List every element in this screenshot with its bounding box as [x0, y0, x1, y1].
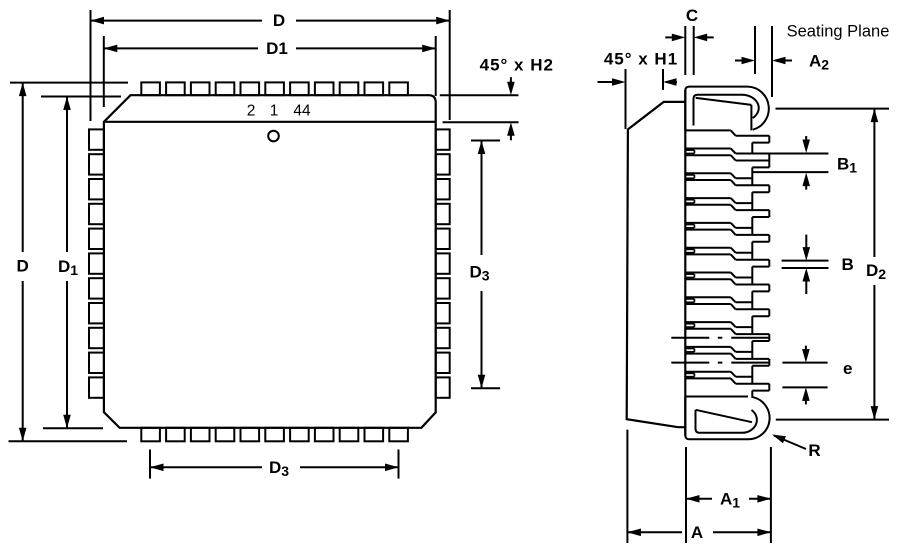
dimension B: down arrow — [803, 235, 811, 261]
pin left column 10 — [89, 353, 104, 373]
package top bevel inner line — [104, 121, 436, 123]
dimension D left: top arrow — [19, 83, 27, 97]
dimension D top: right extension line — [449, 10, 451, 120]
dimension D3 right: top tick — [471, 140, 500, 142]
pin bottom row 5 — [241, 428, 260, 442]
dimension C: left arrow — [665, 34, 685, 42]
45x H2: up arrow — [507, 122, 515, 140]
svg-text:Seating Plane: Seating Plane — [787, 23, 890, 41]
dimension A1: left extension line — [685, 447, 687, 543]
side lead 5 — [685, 229, 731, 231]
dimension D left: bottom extension line — [9, 440, 128, 442]
svg-text:B: B — [842, 255, 854, 274]
dimension D3 bottom: line right segment — [300, 466, 399, 468]
pin left column 4 — [89, 204, 104, 224]
side lead 8 — [685, 303, 731, 305]
45x H1: right arrow — [663, 78, 677, 86]
pin top row 3 — [191, 82, 210, 95]
dimension D1 left: top extension line — [41, 96, 121, 98]
pin left column 5 — [89, 229, 104, 249]
dimension D2: bottom arrow — [871, 406, 879, 420]
dimension A2: right extension line — [771, 26, 773, 97]
R callout: leader line — [774, 436, 806, 450]
svg-text:45° x H2: 45° x H2 — [480, 55, 554, 74]
dimension A1: right extension line — [770, 447, 772, 543]
side lead 6 — [685, 253, 731, 255]
pin right column 4 — [436, 204, 450, 224]
dimension D1: line left segment — [104, 47, 258, 49]
seating plane reference line top — [776, 108, 890, 110]
dimension e: up arrow — [802, 387, 810, 404]
R callout: arrow — [771, 431, 786, 443]
side lead 7 — [685, 278, 731, 280]
pin left column 11 — [89, 377, 104, 397]
pin top row 8 — [315, 82, 334, 95]
dimension D3 right: bottom tick — [471, 387, 500, 389]
dimension C: right extension line — [693, 26, 695, 75]
dimension A1: left arrow — [686, 495, 700, 503]
dimension D3 bottom: line left segment — [150, 466, 262, 468]
dimension D1 left: line top segment — [66, 97, 68, 253]
side lead 9 — [685, 328, 731, 330]
45x H1: left extension line — [625, 69, 627, 129]
pin right column 6 — [436, 253, 450, 273]
dimension D1: left extension line — [103, 36, 105, 107]
dimension D1 left: top arrow — [63, 97, 71, 111]
side lead 3 — [685, 179, 731, 181]
pin top row 1 — [141, 82, 160, 95]
side lead 1 — [685, 129, 731, 131]
dimension B1: up arrow — [802, 173, 810, 190]
pin top row 10 — [365, 82, 384, 95]
pin 1 index circle — [268, 131, 279, 142]
dimension D2: line bottom segment — [873, 285, 875, 420]
body edge stub below lead 1 — [685, 149, 694, 151]
pin left column 2 — [89, 154, 104, 174]
side lead 2 — [685, 154, 731, 156]
dimension C: left extension line — [684, 26, 686, 75]
dimension A: line left segment — [627, 531, 682, 533]
pin right column 8 — [436, 303, 450, 323]
lead centerline lower (dash-dot) — [671, 362, 770, 364]
body edge stub below lead 6 — [685, 273, 694, 275]
side lead 10 — [685, 353, 731, 355]
pin right column 11 — [436, 377, 450, 397]
dimension D1: right arrow — [422, 45, 436, 53]
svg-text:e: e — [843, 359, 852, 378]
pin bottom row 10 — [365, 428, 384, 442]
body edge stub below lead 3 — [685, 199, 694, 201]
dimension A2: left extension line — [754, 26, 756, 74]
svg-text:1: 1 — [270, 103, 279, 120]
pin top row 2 — [166, 82, 185, 95]
dimension D3 bottom: left tick — [149, 450, 151, 479]
pin top row 11 — [389, 82, 408, 95]
dimension e: upper line — [782, 362, 827, 364]
svg-text:D1: D1 — [266, 39, 288, 58]
dimension A: right arrow — [757, 529, 771, 537]
pin left column 6 — [89, 253, 104, 273]
dimension D3 right: bottom arrow — [478, 375, 486, 389]
bottom J-lead inner contour — [696, 410, 757, 433]
pin right column 2 — [436, 154, 450, 174]
dimension B: lower line — [782, 267, 829, 269]
body edge stub below lead 5 — [685, 248, 694, 250]
top J-lead inner contour — [694, 95, 759, 126]
pin bottom row 7 — [290, 428, 309, 442]
dimension D1: right extension line — [435, 36, 437, 96]
body edge stub below lead 9 — [685, 348, 694, 350]
dimension D left: line bottom segment — [22, 281, 24, 441]
dimension D1: line right segment — [296, 47, 436, 49]
dimension D3 right: line top segment — [481, 141, 483, 256]
dimension D3 right: line bottom segment — [481, 291, 483, 388]
dimension D top: line right segment — [296, 20, 450, 22]
svg-text:A: A — [691, 523, 703, 542]
pin bottom row 8 — [315, 428, 334, 442]
dimension D top: right arrow — [436, 17, 450, 25]
svg-text:45° x H1: 45° x H1 — [604, 50, 678, 69]
pin right column 5 — [436, 229, 450, 249]
svg-text:D: D — [273, 11, 285, 30]
body edge stub below lead 8 — [685, 323, 694, 325]
dimension D3 bottom: left arrow — [150, 464, 164, 472]
side view body profile — [627, 102, 686, 427]
45x H1: left arrow — [598, 78, 626, 86]
pin left column 7 — [89, 278, 104, 298]
pin left column 9 — [89, 328, 104, 348]
dimension B: up arrow — [803, 268, 811, 294]
pin bottom row 1 — [141, 428, 160, 442]
pin bottom row 9 — [340, 428, 359, 442]
bottom J-lead outer contour — [685, 397, 769, 440]
pin top row 5 — [241, 82, 260, 95]
dimension D3 right: top arrow — [478, 141, 486, 155]
dimension D left: top extension line — [10, 82, 128, 84]
dimension D3 bottom: right tick — [398, 450, 400, 479]
dimension D2: line top segment — [873, 109, 875, 257]
dimension B1: down arrow — [802, 136, 810, 153]
dimension D1 left: bottom extension line — [43, 427, 103, 429]
svg-text:2: 2 — [247, 103, 256, 120]
dimension e: lower line — [782, 386, 827, 388]
pin left column 8 — [89, 303, 104, 323]
dimension D left: bottom arrow — [19, 428, 27, 442]
pin right column 1 — [436, 129, 450, 149]
pin top row 7 — [290, 82, 309, 95]
dimension D top: left arrow — [91, 17, 105, 25]
svg-text:D: D — [17, 257, 29, 276]
body edge stub below lead 4 — [685, 224, 694, 226]
side view body right face line — [684, 90, 686, 436]
pin bottom row 4 — [216, 428, 235, 442]
pin top row 6 — [265, 82, 284, 95]
pin bottom row 6 — [265, 428, 284, 442]
pin left column 1 — [89, 129, 104, 149]
dimension C: right arrow — [694, 34, 714, 42]
dimension D1: left arrow — [104, 45, 118, 53]
dimension A2: right arrow — [772, 57, 792, 65]
45x H2: upper extension line — [440, 94, 519, 96]
svg-text:44: 44 — [293, 103, 311, 120]
top J-lead package top face slant line — [696, 98, 752, 105]
dimension A1: line left segment — [686, 498, 712, 500]
45x H2: lower extension line — [443, 121, 519, 123]
seating plane reference line bottom — [776, 419, 889, 421]
dimension A1: line right segment — [749, 498, 771, 500]
body edge stub below lead 2 — [685, 174, 694, 176]
45x H2: down arrow — [507, 77, 515, 95]
dimension D1 left: line bottom segment — [66, 281, 68, 428]
45x H1: right extension line — [662, 69, 664, 90]
pin right column 10 — [436, 353, 450, 373]
dimension A: left extension line — [626, 430, 628, 543]
pin left column 3 — [89, 179, 104, 199]
pin right column 3 — [436, 179, 450, 199]
dimension D2: top arrow — [871, 109, 879, 123]
dimension B: upper line — [782, 260, 829, 262]
top J-lead package corner vertical — [750, 105, 752, 130]
dimension e: down arrow — [802, 346, 810, 363]
dimension A2: left arrow — [735, 57, 755, 65]
side lead 11 — [685, 377, 731, 379]
side lead 4 — [685, 204, 731, 206]
bottom J-lead package bottom face slant line — [696, 410, 753, 422]
body edge stub below lead 7 — [685, 298, 694, 300]
top J-lead outer contour — [685, 87, 769, 131]
dimension D1 left: bottom arrow — [63, 415, 71, 429]
pin right column 9 — [436, 328, 450, 348]
pin bottom row 3 — [191, 428, 210, 442]
body edge stub below lead 10 — [685, 372, 694, 374]
PLCC package body outline (top view) — [104, 95, 436, 428]
pin top row 4 — [216, 82, 235, 95]
dimension D top: left extension line — [90, 10, 92, 121]
dimension D left: line top segment — [22, 83, 24, 252]
dimension A: line right segment — [713, 531, 771, 533]
pin bottom row 2 — [166, 428, 185, 442]
svg-text:R: R — [808, 441, 820, 460]
pin right column 7 — [436, 278, 450, 298]
pin bottom row 11 — [389, 428, 408, 442]
lead centerline upper (dash-dot) — [671, 337, 770, 339]
dimension A: left arrow — [627, 529, 641, 537]
dimension D3 bottom: right arrow — [385, 464, 399, 472]
dimension D top: line left segment — [91, 20, 263, 22]
dimension A1: right arrow — [757, 495, 771, 503]
pin top row 9 — [340, 82, 359, 95]
svg-text:C: C — [686, 6, 698, 25]
